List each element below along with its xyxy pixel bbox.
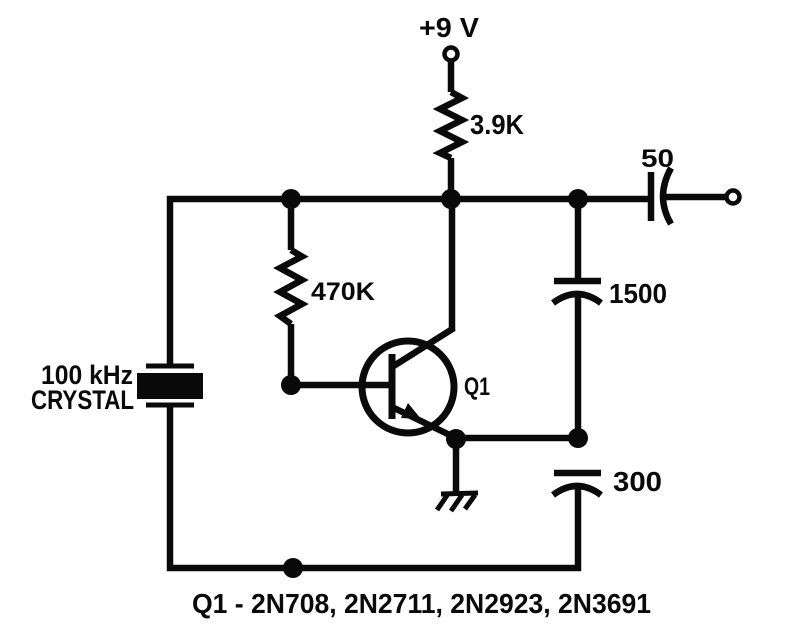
- transistor Q1: [362, 328, 458, 439]
- base wire: [291, 382, 394, 389]
- wire: [448, 158, 455, 199]
- svg-text:CRYSTAL: CRYSTAL: [31, 385, 134, 415]
- bottom wire: [167, 565, 581, 572]
- emitter junction dot: [446, 429, 466, 449]
- resistor 3.9K: [440, 92, 462, 158]
- main horizontal wire: [167, 196, 649, 203]
- node +9V terminal: [445, 48, 458, 61]
- svg-text:+9 V: +9 V: [419, 12, 479, 43]
- svg-text:470K: 470K: [311, 278, 375, 306]
- junction dot: [568, 428, 588, 448]
- wire: [167, 196, 174, 366]
- collector wire: [449, 199, 456, 330]
- resistor 470K: [280, 250, 302, 324]
- svg-text:3.9K: 3.9K: [470, 109, 524, 140]
- emitter wire: [456, 435, 578, 442]
- wire: [663, 194, 727, 201]
- junction dot: [568, 189, 588, 209]
- junction dot: [281, 189, 301, 209]
- wire: [575, 486, 582, 571]
- output terminal: [727, 191, 740, 204]
- wire: [288, 196, 295, 250]
- junction dot: [441, 189, 461, 209]
- ground: [437, 493, 478, 511]
- wire: [167, 407, 174, 571]
- svg-text:Q1 - 2N708, 2N2711, 2N2923, 2N: Q1 - 2N708, 2N2711, 2N2923, 2N3691: [192, 588, 651, 619]
- svg-text:1500: 1500: [609, 278, 667, 309]
- svg-text:300: 300: [613, 466, 662, 497]
- svg-text:50: 50: [641, 145, 674, 173]
- wire: [575, 294, 582, 441]
- 100 kHz CRYSTAL label: [31, 360, 134, 415]
- wire: [453, 439, 460, 492]
- wire: [288, 324, 295, 385]
- wire: [575, 196, 582, 278]
- junction node base: [281, 375, 301, 395]
- capacitor 300: [553, 473, 601, 495]
- capacitor 1500: [553, 281, 601, 303]
- svg-text:Q1: Q1: [464, 373, 490, 401]
- crystal Y1: [137, 366, 203, 405]
- capacitor 50: [651, 168, 671, 224]
- wire: [448, 61, 455, 92]
- junction dot: [283, 558, 303, 578]
